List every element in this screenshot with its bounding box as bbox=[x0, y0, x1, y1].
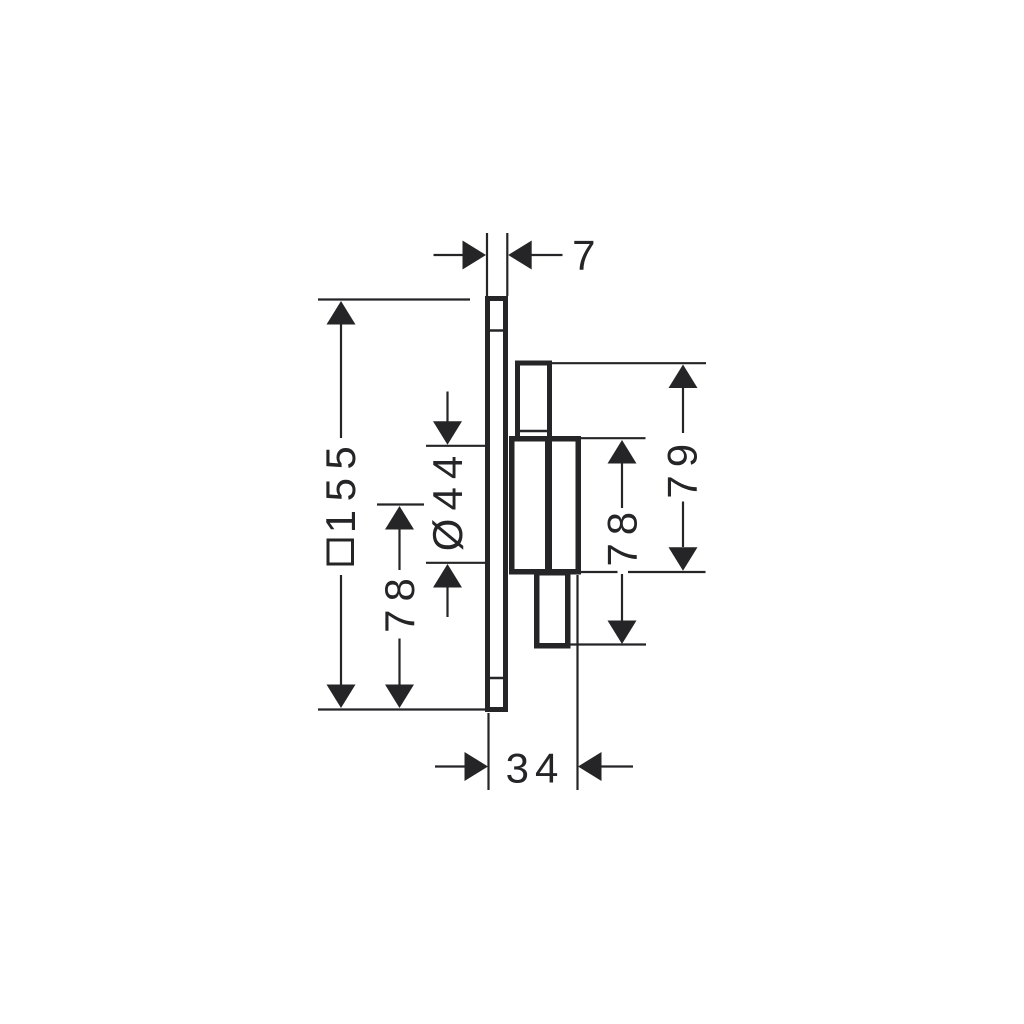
svg-text:79: 79 bbox=[659, 436, 706, 499]
svg-text:7: 7 bbox=[572, 232, 595, 279]
svg-text:34: 34 bbox=[506, 745, 565, 792]
svg-text:78: 78 bbox=[599, 504, 646, 567]
svg-text:Ø44: Ø44 bbox=[424, 448, 471, 551]
svg-text:155: 155 bbox=[317, 438, 364, 534]
svg-text:78: 78 bbox=[376, 570, 423, 633]
